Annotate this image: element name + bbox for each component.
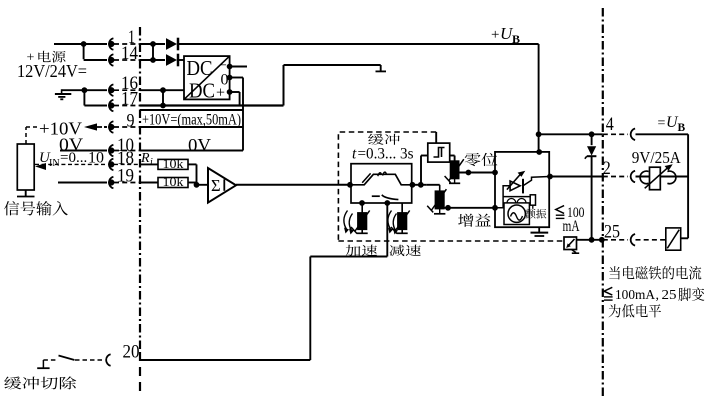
svg-text:DC: DC xyxy=(187,56,213,80)
svg-text:R: R xyxy=(140,151,150,166)
svg-text:0: 0 xyxy=(221,72,229,89)
svg-text:+10V=(max,50mA): +10V=(max,50mA) xyxy=(142,112,241,129)
svg-text:9V/25A: 9V/25A xyxy=(632,148,682,167)
svg-text:25: 25 xyxy=(662,288,677,303)
svg-text:IN: IN xyxy=(49,158,60,169)
svg-text:mA: mA xyxy=(563,218,581,235)
svg-text:4: 4 xyxy=(606,114,614,135)
svg-text:DC: DC xyxy=(189,79,215,103)
svg-text:9: 9 xyxy=(127,111,135,132)
svg-text:+: + xyxy=(491,27,499,43)
svg-text:t: t xyxy=(352,145,357,162)
svg-text:=0.3... 3s: =0.3... 3s xyxy=(358,145,414,162)
svg-text:,: , xyxy=(656,288,660,303)
svg-text:18: 18 xyxy=(117,148,134,169)
svg-text:20: 20 xyxy=(123,342,140,363)
svg-text:12V/24V=: 12V/24V= xyxy=(17,61,87,81)
svg-text:17: 17 xyxy=(121,89,138,110)
svg-text:=: = xyxy=(658,116,666,131)
svg-text:i: i xyxy=(150,157,153,168)
svg-text:10k: 10k xyxy=(163,174,185,189)
svg-text:10k: 10k xyxy=(163,156,185,171)
svg-text:B: B xyxy=(678,122,686,134)
svg-text:Σ: Σ xyxy=(211,176,221,195)
svg-text:100mA: 100mA xyxy=(615,288,656,303)
svg-text:=0...: =0... xyxy=(60,150,87,166)
svg-text:0V: 0V xyxy=(188,135,211,155)
svg-text:14: 14 xyxy=(121,43,138,64)
svg-text:B: B xyxy=(512,32,520,46)
